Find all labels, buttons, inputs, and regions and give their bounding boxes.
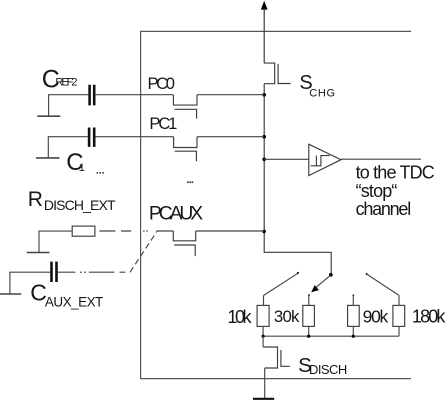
wire 30k bottom	[308, 326, 310, 336]
node 90k rail junction	[352, 335, 355, 338]
svg-text:PC1: PC1	[149, 114, 177, 133]
wire CAUX_EXT right solid	[58, 271, 76, 273]
switch S1 blade (10k)	[264, 273, 298, 295]
node 180k blade end	[366, 273, 368, 275]
switch S2 blade with arrow (30k selected)	[316, 275, 331, 288]
switch S4 blade (180k)	[367, 274, 399, 295]
transistor PC1	[174, 137, 197, 162]
svg-text:1: 1	[79, 162, 85, 174]
transistor S_CHG	[264, 63, 290, 84]
wire RDISCH_EXT left	[39, 231, 72, 252]
ellipsis below PC1	[187, 181, 193, 183]
svg-text:CHG: CHG	[309, 87, 335, 99]
wire CREF2 left	[49, 95, 89, 116]
resistor R 10k body	[257, 305, 269, 326]
resistor R 30k body	[303, 305, 315, 326]
wire dash-dot RDISCH_EXT to PCAUX	[100, 230, 174, 232]
svg-text:channel: channel	[356, 199, 412, 219]
ground RDISCH_EXT	[27, 252, 50, 254]
resistor RDISCH_EXT body	[72, 226, 95, 236]
node 10k rail junction	[262, 335, 265, 338]
wire 10k bottom	[262, 326, 264, 336]
ground SDISCH	[253, 398, 274, 400]
transistor PCAUX	[173, 231, 195, 256]
node PC1 drain junction	[262, 135, 266, 139]
svg-text:180k: 180k	[412, 307, 446, 327]
node PC0 drain junction	[262, 93, 266, 97]
svg-text:DISCH: DISCH	[309, 362, 347, 377]
ground CAUX_EXT	[0, 293, 21, 295]
transistor PC0	[173, 95, 197, 119]
node switch common pole	[329, 273, 333, 277]
wire 30k contact stub	[308, 295, 310, 305]
wire rail to SDISCH	[262, 336, 264, 347]
capacitor CREF2	[90, 85, 95, 106]
svg-text:to the TDC: to the TDC	[356, 163, 435, 183]
node comparator input junction	[262, 158, 266, 162]
svg-text:90k: 90k	[363, 306, 389, 326]
wire comparator output	[341, 158, 421, 160]
node PCAUX drain junction	[262, 230, 266, 234]
wire PC1 drain	[197, 136, 264, 138]
svg-text:30k: 30k	[274, 307, 300, 326]
resistor R 180k body	[393, 305, 405, 326]
svg-text:10k: 10k	[227, 307, 252, 327]
ellipsis below C1	[96, 172, 104, 174]
wire bottom rail	[263, 335, 399, 337]
wire SDISCH to ground	[264, 368, 266, 398]
svg-text:REF2: REF2	[55, 77, 77, 89]
wire 180k bottom	[398, 326, 400, 336]
ground CREF2	[37, 115, 60, 117]
wire 180k contact stub	[398, 295, 400, 305]
capacitor CAUX_EXT	[52, 262, 57, 282]
wire C1 left	[48, 137, 88, 158]
svg-text:AUX_EXT: AUX_EXT	[45, 295, 103, 310]
wire PCAUX drain	[196, 230, 264, 232]
op-amp U1 schmitt buffer	[309, 144, 341, 175]
supply arrow	[261, 1, 268, 10]
wire C1 to PC1	[96, 136, 174, 138]
capacitor C1	[89, 128, 94, 147]
ground C1	[36, 157, 60, 159]
wire 90k bottom	[352, 326, 354, 336]
svg-text:DISCH_EXT: DISCH_EXT	[44, 197, 116, 213]
wire 90k contact stub	[352, 295, 354, 305]
node 30k rail junction	[307, 335, 310, 338]
wire dashed diagonal to PCAUX gate line	[130, 231, 157, 272]
wire supply rail top	[263, 9, 265, 64]
svg-text:PCAUX: PCAUX	[149, 204, 203, 225]
wire 10k contact stub	[263, 296, 265, 306]
resistor R 90k body	[348, 305, 360, 326]
transistor SDISCH	[263, 347, 290, 368]
wire main rail	[264, 84, 331, 275]
wire dashed CAUX_EXT	[89, 271, 126, 273]
wire PC0 drain	[197, 94, 264, 96]
svg-text:R: R	[28, 188, 43, 211]
chip outline	[141, 31, 411, 378]
wire comparator input	[264, 158, 309, 160]
node 90k contact	[352, 295, 354, 297]
svg-text:PC0: PC0	[148, 74, 176, 93]
hysteresis symbol	[311, 156, 330, 166]
wire CREF2 to PC0	[96, 94, 174, 96]
wire CAUX_EXT left	[10, 272, 50, 293]
node 30k contact	[308, 294, 310, 296]
